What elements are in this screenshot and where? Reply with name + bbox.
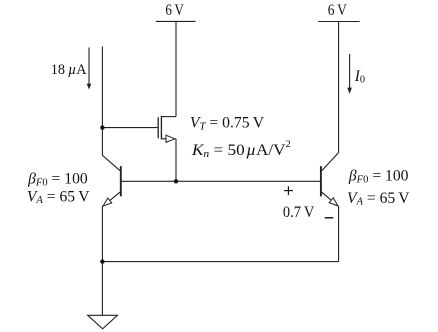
svg-text:6 V: 6 V	[328, 2, 348, 19]
svg-text:0.7 V: 0.7 V	[283, 204, 315, 221]
svg-text:18µA: 18µA	[51, 62, 88, 78]
svg-text:VA = 65 V: VA = 65 V	[347, 190, 410, 208]
svg-text:6 V: 6 V	[165, 2, 184, 19]
svg-text:VA = 65 V: VA = 65 V	[27, 188, 90, 206]
